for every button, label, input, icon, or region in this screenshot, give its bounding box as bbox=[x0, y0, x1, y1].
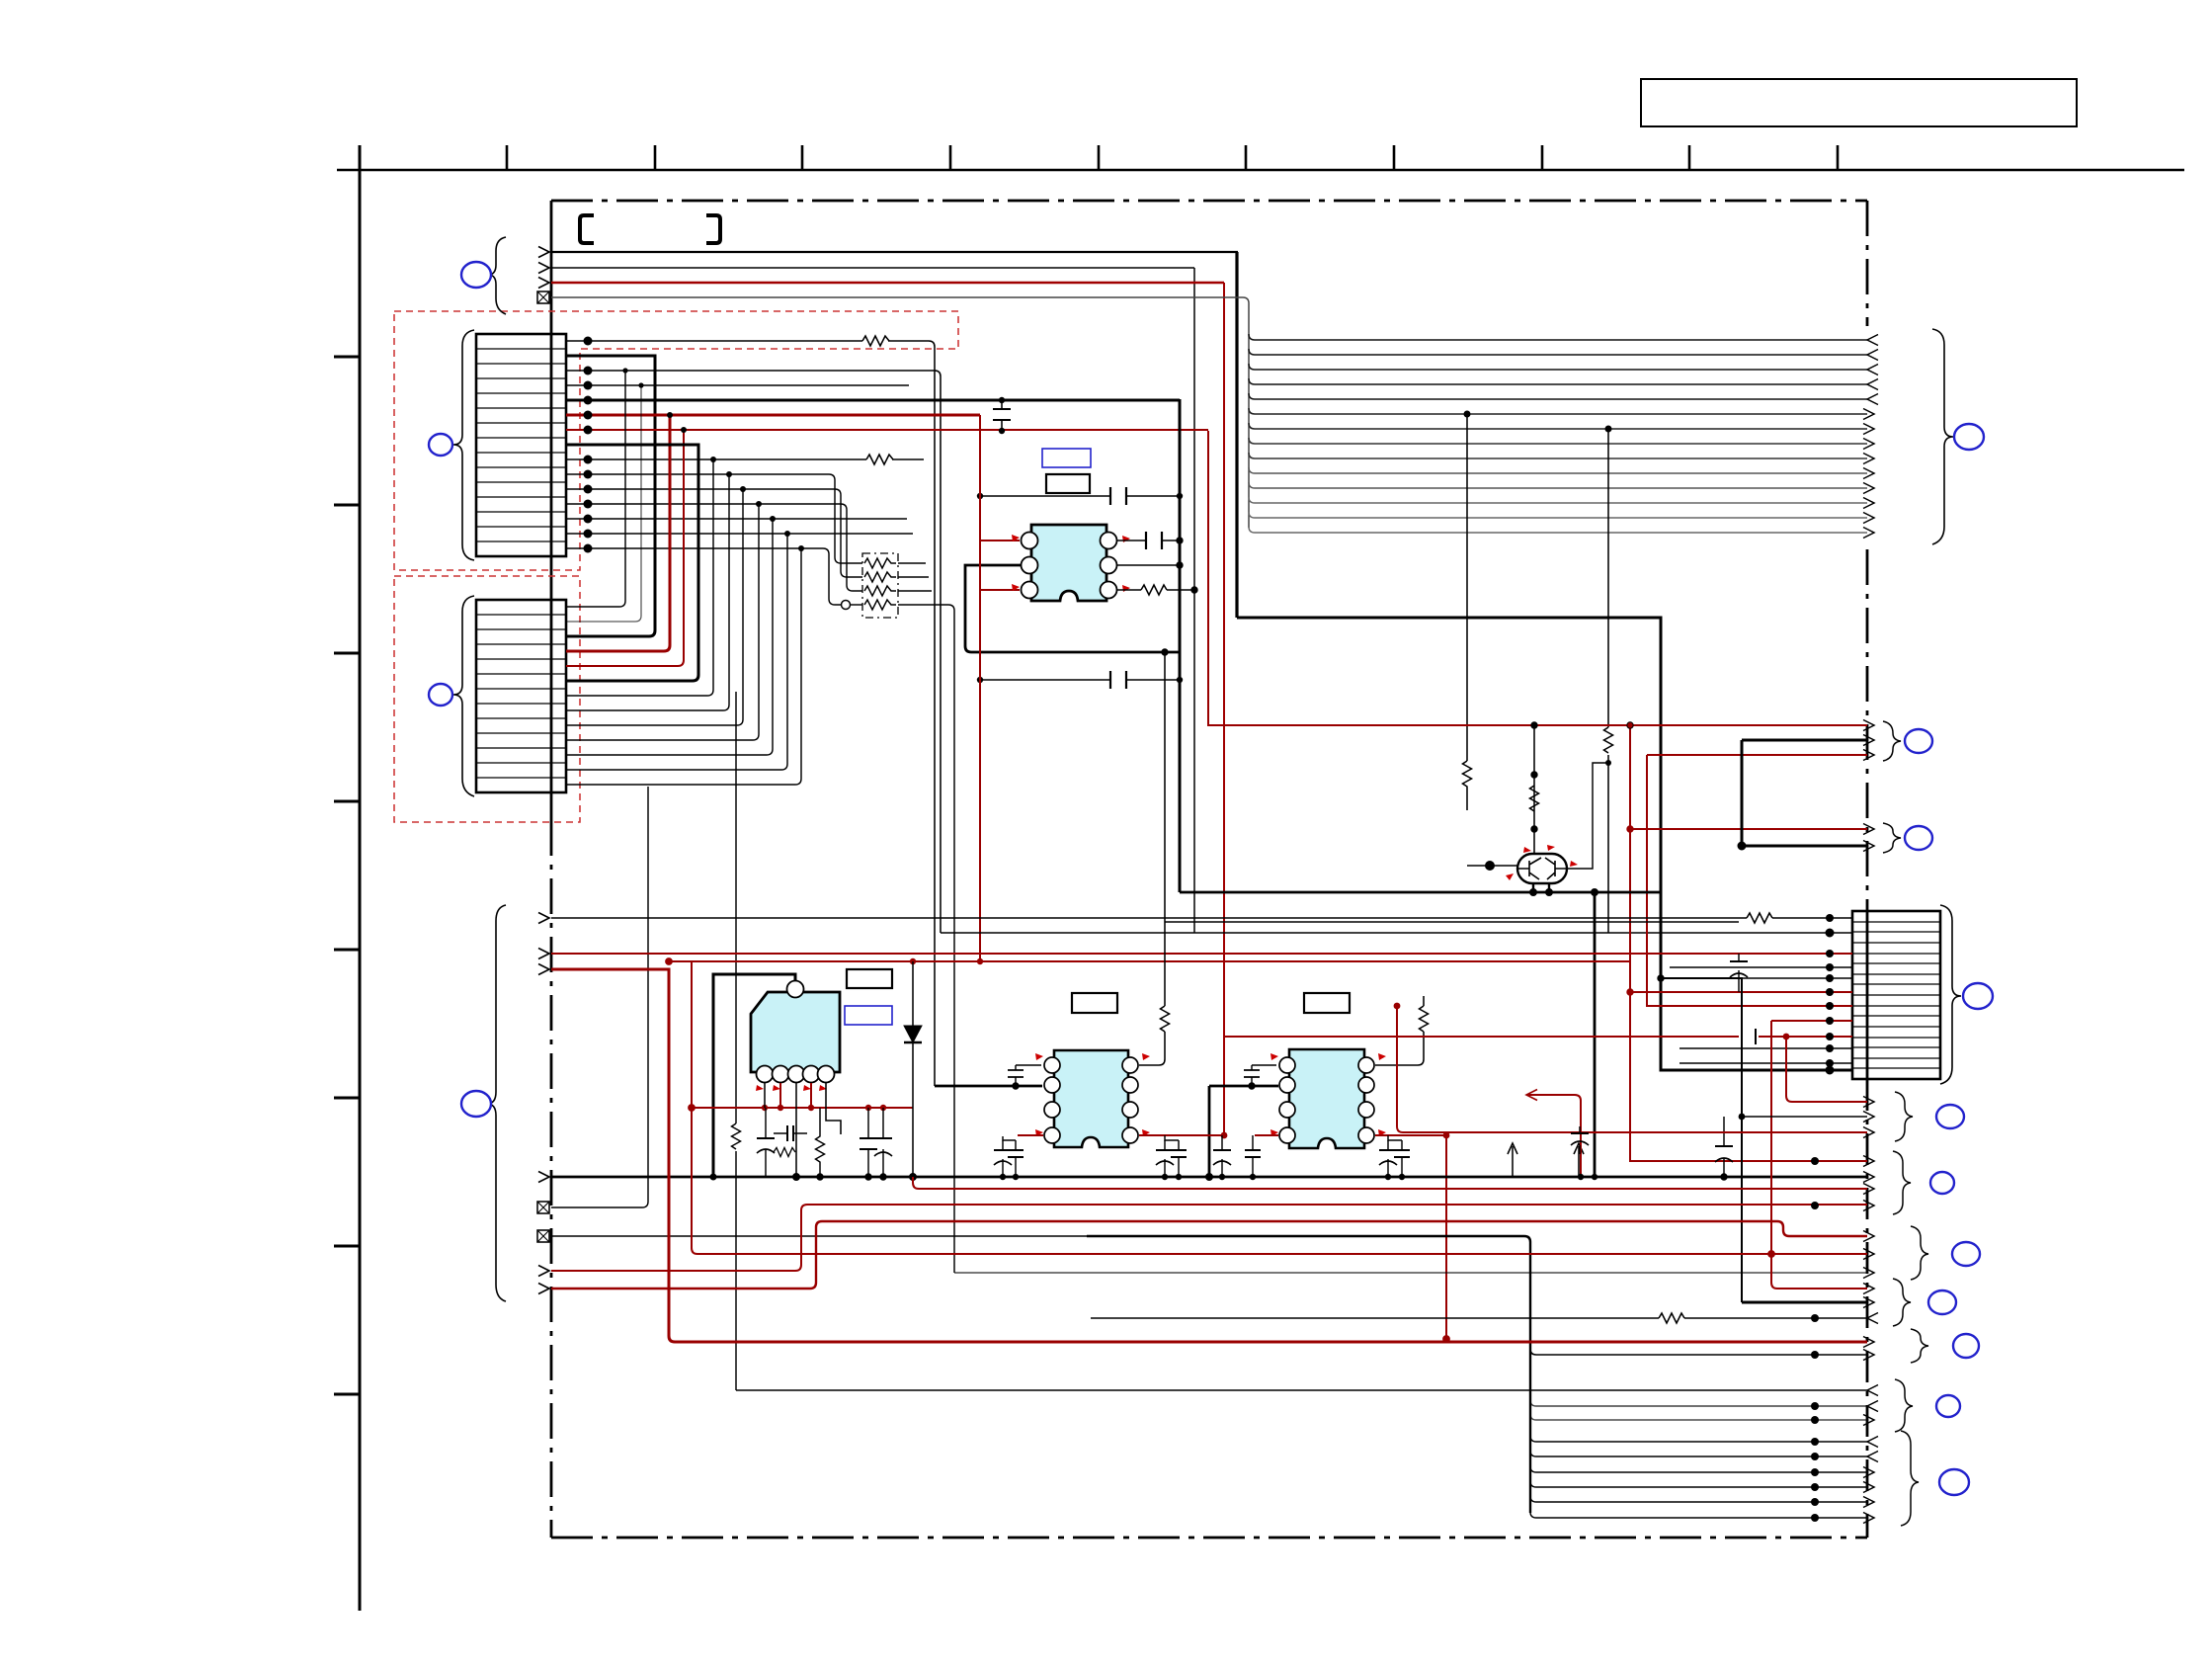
node IC1 r3 bbox=[1191, 587, 1197, 593]
red A1 feed bbox=[1786, 1037, 1867, 1102]
wire IC4 right pin1 riser with resistor bbox=[1375, 996, 1424, 1065]
cap pair CP1 ceramic bbox=[1015, 1140, 1017, 1177]
title box (empty) bbox=[1641, 79, 2077, 126]
ground rail main bbox=[551, 1176, 1867, 1179]
mid frame link v1763 bbox=[1661, 978, 1742, 1302]
wire IC1 right pin1 with C4 bbox=[1117, 540, 1180, 541]
brace group F bbox=[1895, 1379, 1913, 1432]
node red v1414 bbox=[1394, 1003, 1401, 1010]
wire red to IC1 pin3 bbox=[980, 589, 1020, 591]
red wire IC4 pin4 left bbox=[1255, 1134, 1278, 1136]
node Q1 base bbox=[1486, 862, 1495, 871]
resistor R on fan6 drop bbox=[1463, 761, 1472, 810]
wire CN3 row12 stub bbox=[1679, 1062, 1852, 1064]
connector CN2 body bbox=[476, 600, 566, 792]
wire IC1 right pin2 bbox=[1117, 564, 1180, 566]
node w502 left bbox=[977, 493, 983, 499]
node lead2 bbox=[1546, 889, 1553, 896]
arrowhead out 8 bbox=[1863, 439, 1874, 450]
red dashed outline block 2 (around CN2) bbox=[394, 576, 580, 822]
bundle elbow G3 bbox=[1530, 1466, 1867, 1472]
input arrow ground bbox=[538, 1172, 549, 1183]
node C1 top bbox=[999, 397, 1005, 403]
wire CN1 pin1 with resistor bbox=[566, 341, 935, 1086]
capacitor C1 stem bbox=[1001, 400, 1003, 431]
wire terminal to Rbox4 bbox=[851, 604, 862, 606]
wire IC3 right pin1 riser with resistor bbox=[1139, 652, 1165, 1065]
transistor Q1 body bbox=[1517, 854, 1567, 883]
brace group D bbox=[1893, 1279, 1911, 1326]
bundle elbow G5 bbox=[1530, 1496, 1867, 1502]
wire bus B bbox=[551, 267, 1194, 269]
node reg loop gnd bbox=[710, 1174, 717, 1181]
node lead1 bbox=[1530, 889, 1537, 896]
wire CN1 pin3 bbox=[566, 371, 941, 933]
label box REG blue bbox=[845, 1006, 892, 1025]
node C9 on thick bbox=[1013, 1083, 1019, 1089]
terminal box-x lower 2 bbox=[537, 1230, 549, 1242]
wire CN3 row11 stub bbox=[1679, 1047, 1852, 1049]
board boundary right edge bbox=[1866, 201, 1869, 326]
wire box-x2 bus feed bbox=[551, 1235, 1087, 1237]
node on fan wire 7 bbox=[1605, 426, 1612, 433]
red flow arrows IC3 IC4 bbox=[1035, 1053, 1043, 1060]
power route red jog1 bbox=[551, 1205, 1867, 1271]
bus fan wire 13 bbox=[1249, 512, 1867, 518]
wire Q1 base left bbox=[1467, 865, 1517, 867]
arrowheads group E bbox=[1863, 1337, 1874, 1348]
connector CN3 row lines bbox=[1852, 922, 1940, 1068]
board name bracket right bbox=[706, 215, 720, 243]
arrowhead in 5 bbox=[1867, 394, 1878, 405]
bundle elbow G1 bbox=[1530, 1436, 1867, 1442]
brace group E bbox=[1911, 1329, 1928, 1363]
brace for CN1 bbox=[453, 330, 474, 560]
bubble group B bbox=[1930, 1172, 1954, 1194]
node red 1650-1004 bbox=[1627, 989, 1633, 995]
bus fan wire 6 bbox=[1249, 408, 1867, 414]
cap C12 electrolytic below CN3 bbox=[1723, 1117, 1725, 1177]
bus fan wire 8 bbox=[1249, 438, 1867, 444]
bubble group A bbox=[1936, 1105, 1964, 1128]
red wire IC4 pin4 right to v1464 bbox=[1375, 1134, 1446, 1136]
wire CN1 pin2 thick loop bbox=[566, 356, 655, 636]
input arrow lower pin1 bbox=[538, 913, 549, 924]
brace group P3 bbox=[1883, 823, 1901, 853]
node red 1793-1269 bbox=[1768, 1251, 1775, 1258]
arrowhead in 4 bbox=[1867, 379, 1878, 390]
resistor RN2 bbox=[864, 572, 896, 582]
resistor RN4 bbox=[864, 600, 896, 610]
arrowheads group D bbox=[1863, 1284, 1874, 1294]
red left arrowhead bbox=[1526, 1090, 1537, 1101]
red wire IC3 pin4 left bbox=[1018, 1134, 1043, 1136]
connector ref bubble CN1 bbox=[429, 434, 452, 456]
node red 677-973 bbox=[666, 958, 673, 965]
node red 1464-1355 bbox=[1443, 1336, 1450, 1343]
red branch to CN3 row red bbox=[1630, 991, 1852, 993]
wire CN1 pin13 bbox=[566, 518, 907, 520]
thick vertical bus V1194 bbox=[1179, 399, 1182, 892]
bubble group D bbox=[1928, 1290, 1956, 1314]
bubble lower-left group bbox=[461, 1091, 491, 1117]
wire IC1 right pin3 with resistor bbox=[1117, 589, 1194, 591]
node Q1 feed top bbox=[1531, 722, 1537, 728]
bubble group P3 bbox=[1905, 826, 1932, 850]
connector ref bubble CN3 bbox=[1963, 983, 1993, 1009]
junction dots CN3 pin wires bbox=[1826, 914, 1834, 922]
node on fan wire 6 bbox=[1464, 411, 1471, 418]
arrowhead out red mid bbox=[1863, 720, 1874, 731]
bus fan wire 11 bbox=[1249, 482, 1867, 488]
power red vertical v1650 bbox=[1630, 725, 1867, 1161]
input arrow top group pin3 bbox=[538, 278, 549, 289]
node diode gnd bbox=[910, 1174, 917, 1181]
arrowheads group G bbox=[1867, 1437, 1878, 1448]
power red vertical v1464 bbox=[1445, 1135, 1447, 1339]
vertical link CN2 r1 bbox=[566, 371, 625, 607]
connector CN1 body bbox=[476, 334, 566, 556]
wire Q1 right loop bbox=[1567, 763, 1608, 869]
node red 1239 end bbox=[1221, 1132, 1228, 1139]
bus fan wire 2 bbox=[1249, 349, 1867, 355]
IC3 body bbox=[1054, 1050, 1128, 1147]
thick route top: across and down bbox=[1237, 618, 1852, 1070]
wire CN1 pin8 thick loop2 bbox=[566, 445, 698, 681]
node red973 x924 bbox=[910, 958, 916, 964]
regulator pin1 drop bbox=[764, 1083, 766, 1108]
brace group P2 bbox=[1883, 721, 1901, 761]
connector CN1 row lines bbox=[476, 349, 566, 541]
power red vertical v1667 bbox=[1647, 755, 1852, 1006]
wire bus A vertical bbox=[1235, 252, 1238, 618]
arrowhead out 10 bbox=[1863, 468, 1874, 479]
node caps gnd bbox=[865, 1174, 871, 1180]
arrowhead in 3 bbox=[1867, 365, 1878, 375]
wire F1 long bbox=[736, 1389, 1867, 1391]
cap C5 electrolytic bbox=[765, 1108, 767, 1177]
arrowhead out red3 bbox=[1863, 824, 1874, 835]
arrowhead out 7 bbox=[1863, 424, 1874, 435]
arrowheads group A bbox=[1863, 1097, 1874, 1108]
wire CN1 pin9 with resistor bbox=[566, 458, 924, 460]
diode D1 wire bbox=[912, 961, 914, 1177]
node v1763 start bbox=[1658, 975, 1664, 981]
node C1 bottom bbox=[999, 428, 1005, 434]
resistor R3 bbox=[1141, 585, 1167, 595]
arrowhead out 13 bbox=[1863, 513, 1874, 524]
node A2 bbox=[1739, 1114, 1746, 1121]
node Q1 loop bbox=[1605, 760, 1611, 766]
node C12 gnd bbox=[1721, 1174, 1727, 1180]
bubble bus fan bbox=[1954, 424, 1984, 450]
thick drop to ground bbox=[1594, 892, 1597, 1177]
power route red jog2 bbox=[551, 1221, 1867, 1289]
node thick at CN3 bbox=[1826, 1066, 1834, 1074]
wire D3 long with resistor bbox=[1091, 1317, 1867, 1319]
power red bus H1121 bbox=[692, 1107, 913, 1109]
capacitor C1 plates bbox=[993, 409, 1011, 420]
brace lower-left group bbox=[487, 905, 506, 1301]
terminal box-x lower 1 bbox=[537, 1202, 549, 1213]
brace bus fan right bbox=[1932, 329, 1953, 544]
node C10 on thick bbox=[1249, 1083, 1255, 1089]
wire red to IC1 pin1 bbox=[980, 540, 1020, 541]
bubble group E bbox=[1953, 1334, 1979, 1358]
wire CN1 pin11 to Rbox2 bbox=[566, 489, 862, 577]
node red 1464 junction bbox=[1443, 1132, 1450, 1139]
resistor R4 on Q1 feed bbox=[1530, 786, 1539, 811]
capacitor C3 plates bbox=[1110, 671, 1126, 689]
power wire red out2 bbox=[1647, 754, 1867, 756]
cap pair CP1 electrolytic bbox=[1002, 1140, 1004, 1177]
power route red main E bbox=[551, 969, 1867, 1342]
arrowhead out red2 bbox=[1863, 750, 1874, 761]
node Q1 feed at 839 bbox=[1531, 826, 1537, 832]
bus fan wire 14 bbox=[1249, 527, 1867, 533]
wire power red top bbox=[551, 282, 1224, 285]
brace for CN3 bbox=[1940, 905, 1961, 1084]
red A3 feed bbox=[1397, 1006, 1867, 1132]
brace group C bbox=[1911, 1226, 1928, 1280]
vertical CN2 red link bbox=[566, 430, 684, 666]
bus fan wire 12 bbox=[1249, 497, 1867, 503]
red flow arrows IC1 bbox=[1012, 535, 1020, 541]
stair link CN2 r12 bbox=[566, 519, 773, 755]
thick wire D2 out bbox=[1742, 1301, 1867, 1304]
node thick 856 bbox=[1738, 842, 1746, 850]
node drop top bbox=[1592, 889, 1598, 896]
cap C7 ceramic bbox=[867, 1108, 869, 1177]
input arrow lower red1 bbox=[538, 1266, 549, 1277]
terminal box-x top group pin4 bbox=[537, 291, 549, 303]
capacitor C2 plates bbox=[1110, 487, 1126, 505]
stair link CN2 r13 bbox=[566, 534, 787, 770]
bus fan wire 4 bbox=[1249, 378, 1867, 384]
regulator pin2 drop red bbox=[779, 1083, 781, 1108]
red dashed outline block 1 (around CN1) bbox=[394, 311, 958, 570]
resistor R6 h bbox=[774, 1148, 795, 1157]
wire with C3 lower bbox=[980, 679, 1180, 681]
cap C10 between IC4 pins bbox=[1251, 1065, 1253, 1086]
resistor RN3 bbox=[864, 586, 896, 596]
resistor network box dash-dot bbox=[862, 553, 898, 618]
wire gray C3 bbox=[954, 1272, 1867, 1274]
resistor R8 bbox=[1747, 913, 1772, 923]
cap C9 between IC3 pins bbox=[1015, 1065, 1017, 1086]
node wire B CN3 bbox=[1826, 929, 1834, 937]
red wire IC3 pin4 right to v1239 bbox=[1139, 1134, 1224, 1136]
red flow arrows Q1 bbox=[1523, 847, 1531, 853]
resistor R9 bbox=[1659, 1313, 1684, 1323]
node IC1 r2 bbox=[1177, 562, 1183, 568]
regulator pin5 drop bbox=[826, 1083, 841, 1134]
bubble top-left group bbox=[461, 262, 491, 288]
stair link CN2 r11 bbox=[566, 504, 759, 740]
arrowheads group B bbox=[1863, 1156, 1874, 1167]
IC1 black frame loop left bbox=[965, 565, 1180, 652]
label box REG value bbox=[847, 969, 892, 988]
arrowhead in 1 bbox=[1867, 335, 1878, 346]
regulator top pin bbox=[787, 981, 804, 998]
arrowhead out 6 bbox=[1863, 409, 1874, 420]
diode D1 symbol bbox=[904, 1026, 922, 1042]
cap C11 electrolytic near CN3 bbox=[1738, 954, 1740, 992]
regulator pin3 drop to gnd bbox=[795, 1083, 797, 1177]
arrowhead out 14 bbox=[1863, 528, 1874, 539]
wire gray F3 bbox=[1530, 1414, 1867, 1420]
connector CN2 row lines bbox=[476, 615, 566, 778]
wire B to CN3 row2 bbox=[941, 932, 1852, 934]
bus fan wire 5 bbox=[1249, 393, 1867, 399]
power red drop v700 bbox=[692, 961, 1867, 1254]
node red1121 pins bbox=[762, 1105, 768, 1111]
bundle elbow E2 bbox=[1530, 1349, 1867, 1355]
bundle elbow G4 bbox=[1530, 1481, 1867, 1487]
wire RN4 out bbox=[898, 605, 954, 1273]
thick bracket out wires bbox=[1742, 740, 1867, 846]
label box IC3 bbox=[1072, 993, 1117, 1013]
IC3 pin circles bbox=[1044, 1057, 1060, 1073]
bundle elbow G6 bbox=[1530, 1512, 1867, 1518]
stair link CN2 r10 bbox=[566, 489, 743, 725]
wire CN1 pin14 bbox=[566, 533, 913, 535]
wire IC4 pin1 stub bbox=[1252, 1064, 1276, 1066]
wire RN3 out bbox=[898, 590, 932, 592]
node riser 660 bbox=[1162, 649, 1168, 655]
brace group A bbox=[1895, 1092, 1913, 1141]
red wire CN3 row9 with cap bbox=[1224, 1036, 1852, 1038]
stair link CN2 r14 bbox=[566, 548, 801, 785]
node pin3 gnd bbox=[793, 1174, 800, 1181]
wire RN1 out bbox=[898, 562, 926, 564]
transistor Q1 internals bbox=[1517, 858, 1567, 879]
bubble group F bbox=[1936, 1395, 1960, 1417]
arrowhead out thick1 bbox=[1863, 735, 1874, 746]
bundle elbow F2 bbox=[1530, 1400, 1867, 1406]
power wire red out3 bbox=[1630, 828, 1867, 830]
frame left tick marks bbox=[334, 357, 360, 1394]
resistor RN1 bbox=[864, 558, 896, 568]
cap pair CP2 bbox=[1164, 1140, 1166, 1177]
wire IC3 pin1 stub bbox=[1016, 1064, 1041, 1066]
wire CN1 pin15 to terminal bbox=[566, 548, 841, 605]
bundle elbow G2 bbox=[1530, 1451, 1867, 1456]
wire gray bus to fan bbox=[551, 297, 1249, 528]
arrowhead out 11 bbox=[1863, 483, 1874, 494]
red left arrow stub bbox=[1526, 1095, 1581, 1177]
wire CN1 pin4 bbox=[566, 384, 909, 386]
input arrow lower pin3 bbox=[538, 964, 549, 975]
wire CN3 row1 long with resistor bbox=[551, 917, 1852, 919]
wire CN1 pin6 power thick bbox=[566, 414, 980, 417]
wire CN1 pin5 thick bus bbox=[566, 399, 1180, 402]
wire CN1 pin10 to Rbox1 bbox=[566, 474, 862, 563]
resistor R11 bbox=[1420, 1006, 1429, 1032]
power red from diode bottom bbox=[913, 1177, 1867, 1189]
cap C14 small near gnd-arrow bbox=[1571, 1132, 1589, 1134]
node w688 left bbox=[977, 677, 983, 683]
IC1 pin circles left bbox=[1022, 533, 1038, 549]
vertical link CN2 r2 bbox=[566, 385, 641, 622]
thin wire h949 bbox=[1165, 921, 1739, 923]
wire CN1 pin7 power bbox=[566, 429, 1208, 431]
regulator IC2 thick top loop bbox=[713, 974, 795, 1177]
wire RN2 out bbox=[898, 576, 929, 578]
node red 1650-839 bbox=[1627, 826, 1633, 832]
vertical CN2 red thick link bbox=[566, 415, 670, 651]
cap C8 electrolytic bbox=[882, 1108, 884, 1177]
frame left ruler line bbox=[359, 145, 362, 1611]
arrowhead out thick2 bbox=[1863, 841, 1874, 852]
cap pair CP4 bbox=[1387, 1140, 1389, 1177]
input arrow top group pin1 bbox=[538, 247, 549, 258]
wire bus A bbox=[551, 251, 1238, 253]
node R7 gnd bbox=[817, 1174, 823, 1180]
regulator bottom pins bbox=[757, 1066, 774, 1083]
resistor R2 on CN1 pin9 bbox=[866, 455, 893, 464]
node gnd x1614 bbox=[1592, 1174, 1598, 1180]
wire CN3 row6 stub bbox=[1670, 966, 1852, 968]
resistor R7 vertical bbox=[816, 1108, 825, 1177]
junction dots cap pairs gnd bbox=[1000, 1174, 1006, 1180]
brace top-left group bbox=[488, 237, 506, 314]
transistor Q1 leads down bbox=[1533, 883, 1549, 892]
label box IC4 bbox=[1304, 993, 1350, 1013]
bubble group P2 bbox=[1905, 729, 1932, 753]
arrowheads group F bbox=[1867, 1385, 1878, 1396]
IC4 body bbox=[1289, 1049, 1364, 1148]
power red bus H973 bbox=[669, 960, 1630, 962]
bus fan wire 1 bbox=[1249, 334, 1867, 340]
cap C13 plates on row9 bbox=[1742, 1029, 1756, 1044]
node red 700-1121 bbox=[689, 1105, 696, 1112]
brace for CN2 bbox=[453, 596, 474, 796]
ground stub arrow 2 bbox=[1578, 1146, 1580, 1177]
bus fan wire 7 bbox=[1249, 423, 1867, 429]
long vertical to lower left bbox=[642, 787, 648, 1207]
node red973 x992 bbox=[977, 958, 983, 964]
wire from fan 6 down bbox=[1466, 414, 1468, 761]
wire power red top vertical bbox=[1223, 283, 1225, 1136]
junction dots line x1837 bbox=[1811, 1157, 1819, 1165]
bubble group C bbox=[1952, 1242, 1980, 1266]
capacitor C4 plates bbox=[1146, 532, 1162, 549]
thick feed IC4 pin2 bbox=[1209, 1086, 1278, 1177]
arrowhead out 9 bbox=[1863, 454, 1874, 464]
bus feed thick to drop bbox=[1087, 1236, 1530, 1513]
long vertical mid bbox=[735, 692, 737, 1390]
open terminal circle bbox=[842, 601, 851, 610]
stair link CN2 r9 bbox=[566, 474, 729, 710]
stems CP1 bbox=[1003, 1136, 1016, 1140]
connector ref bubble CN2 bbox=[429, 684, 452, 706]
connector CN3 body (right) bbox=[1852, 911, 1940, 1079]
node w688 right bbox=[1177, 677, 1183, 683]
node w502 right bbox=[1177, 493, 1183, 499]
wire red CN3 row3 bbox=[551, 953, 1852, 955]
arrowhead out 12 bbox=[1863, 498, 1874, 509]
red flow arrows regulator bbox=[756, 1085, 764, 1091]
red vertical v1793 bbox=[1771, 1021, 1867, 1289]
bus fan wire 10 bbox=[1249, 467, 1867, 473]
resistor R1 on CN1 pin1 bbox=[862, 336, 889, 346]
brace group B bbox=[1893, 1151, 1911, 1214]
brace group G bbox=[1901, 1431, 1919, 1526]
thick feed IC3 pin2 bbox=[935, 1085, 1042, 1088]
red stub CN3 row8 bbox=[1771, 1020, 1852, 1022]
wire box-x1 to riser bbox=[551, 1206, 642, 1208]
